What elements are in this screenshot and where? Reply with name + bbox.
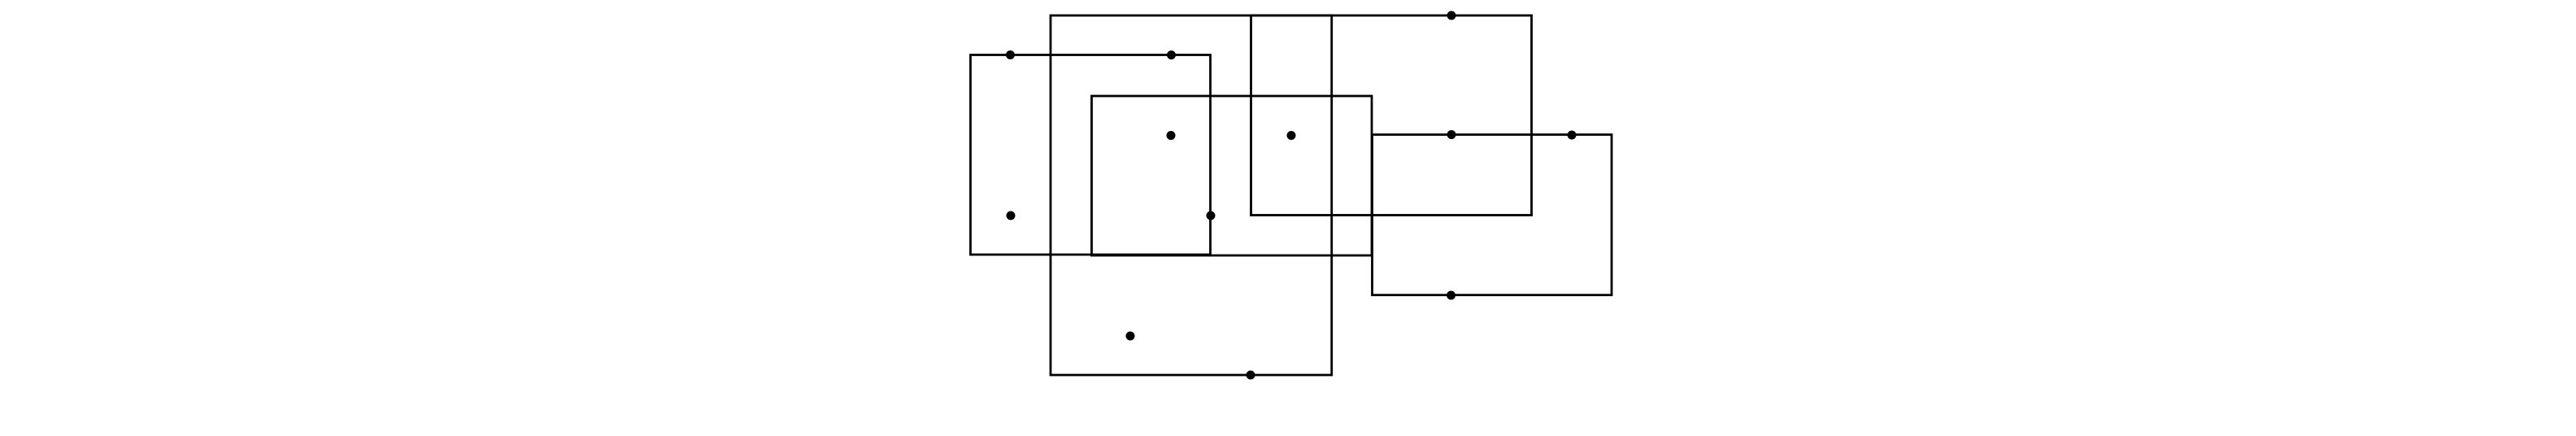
rectangle A (tall left, top row to bottom row): [1051, 15, 1332, 375]
point P11 inside rectangle A: [1126, 332, 1135, 341]
point P1 on top edge of rectangle E: [1006, 50, 1015, 59]
rectangle B (top right wide): [1251, 15, 1532, 216]
point P5 inside overlap of rectangles A and B: [1287, 131, 1296, 140]
point P2 on top edge of rectangle E: [1167, 50, 1176, 59]
point P10 on bottom edge of rectangle G: [1447, 291, 1456, 300]
point P7 on top edge of rectangle G: [1568, 131, 1577, 140]
rectangle E (left, second from top): [971, 55, 1211, 255]
point P9 on right edge of rectangle E: [1207, 211, 1216, 220]
point P4 inside rectangle F: [1167, 131, 1176, 140]
rectangle F (middle): [1092, 96, 1373, 255]
point P8 inside rectangle E: [1007, 211, 1016, 220]
point P12 on bottom edge of rectangle A: [1247, 371, 1255, 380]
point P3 on top edge of rectangle B: [1447, 11, 1456, 20]
point P6 on top edge of rectangle G: [1447, 130, 1456, 139]
rectangle G (right middle): [1373, 135, 1612, 295]
